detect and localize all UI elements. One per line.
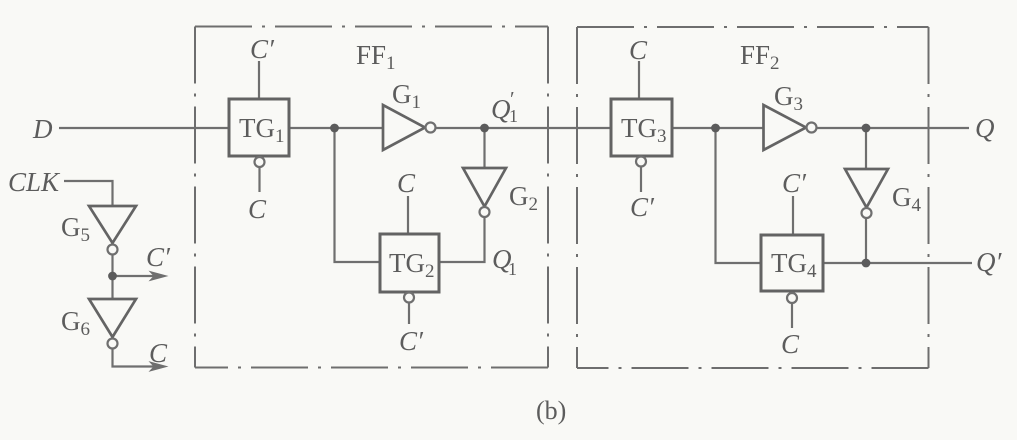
wire G6 bubble down to C arrow xyxy=(113,349,161,367)
svg-text:(b): (b) xyxy=(536,396,566,425)
FF2 dash-dot enclosure xyxy=(577,27,929,368)
node Q xyxy=(862,124,871,133)
svg-text:C: C xyxy=(248,194,267,224)
inverter G2 (vertical) xyxy=(463,168,506,207)
bubble TG4 bottom xyxy=(787,293,797,303)
wire C into TG2 top xyxy=(407,196,409,234)
wire TG3 to G3 xyxy=(672,127,763,129)
inverter G1 xyxy=(383,105,425,150)
FF1 dash-dot enclosure xyxy=(195,27,548,368)
svg-text:Q′: Q′ xyxy=(976,247,1002,277)
svg-text:CLK: CLK xyxy=(8,167,61,197)
wire G1 bubble to TG3 xyxy=(436,127,611,129)
wire TG1 bottom bubble to C label xyxy=(258,167,260,192)
wire D input xyxy=(59,127,229,129)
wire TG1 to G1 xyxy=(289,127,383,129)
svg-text:Q: Q xyxy=(975,113,995,143)
svg-text:C′: C′ xyxy=(146,242,171,272)
wire node Q1prime down to G2 xyxy=(483,128,485,168)
bubble TG2 bottom xyxy=(404,293,414,303)
svg-text:C′: C′ xyxy=(399,326,424,356)
svg-text:C: C xyxy=(781,329,800,359)
node Qprime xyxy=(862,259,871,268)
bubble TG3 bottom xyxy=(636,157,646,167)
wire G4 bubble to Qprime line xyxy=(865,218,867,263)
wire Cprime into TG1 top xyxy=(258,61,260,99)
wire Cprime into TG4 top xyxy=(792,196,794,235)
svg-text:C: C xyxy=(397,168,416,198)
svg-text:C′: C′ xyxy=(250,34,275,64)
wire G3 bubble to Q xyxy=(817,127,970,129)
wire TG4 bottom bubble to C label xyxy=(791,304,793,328)
transmission gate TG3 xyxy=(611,99,672,156)
wire node Q down to G4 xyxy=(865,128,867,169)
node after TG1 xyxy=(330,124,339,133)
inverter G4 (vertical) xyxy=(845,169,888,208)
wire Cprime arrow xyxy=(113,275,161,277)
transmission gate TG2 xyxy=(380,234,439,292)
node CLK chain xyxy=(108,272,117,281)
wire FF2 feedback node to TG4 xyxy=(716,128,762,263)
svg-text:1: 1 xyxy=(508,259,517,279)
wire CLK input xyxy=(64,181,113,206)
svg-text:D: D xyxy=(32,114,53,144)
wire Qprime line xyxy=(823,262,972,264)
wire FF1 feedback node to TG2 xyxy=(335,128,381,262)
svg-text:1: 1 xyxy=(509,106,518,126)
wire TG3 bottom bubble to Cprime label xyxy=(640,167,642,192)
svg-text:C′: C′ xyxy=(630,192,655,222)
wire TG2 right to G2 output xyxy=(439,217,485,262)
inverter G5 (vertical) xyxy=(89,206,136,243)
transmission gate TG4 xyxy=(761,235,823,291)
inverter G6 (vertical) xyxy=(89,299,136,337)
node Q1prime xyxy=(480,124,489,133)
bubble TG1 bottom xyxy=(255,157,265,167)
svg-text:C: C xyxy=(629,35,648,65)
wire TG2 bottom bubble to Cprime label xyxy=(408,303,410,324)
transmission gate TG1 xyxy=(229,99,289,156)
wire C into TG3 top xyxy=(638,61,640,99)
svg-text:Q: Q xyxy=(491,94,511,124)
svg-text:C′: C′ xyxy=(782,168,807,198)
svg-text:C: C xyxy=(149,338,168,368)
wire G5 bubble to node to G6 xyxy=(111,255,113,299)
node after TG3 xyxy=(711,124,720,133)
inverter G3 xyxy=(764,105,807,150)
